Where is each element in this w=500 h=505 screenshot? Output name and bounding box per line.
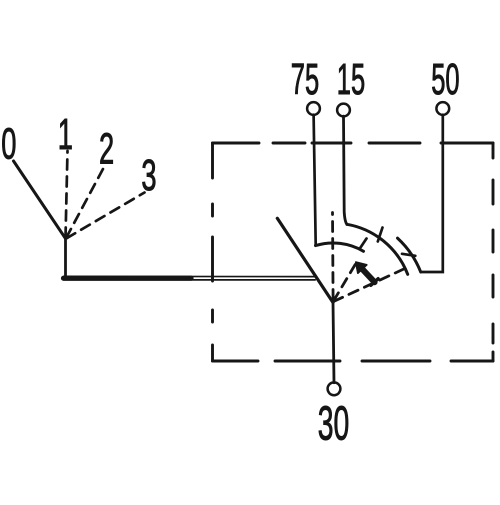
- switch housing dashed top edge: [213, 142, 494, 145]
- svg-text:1: 1: [58, 109, 73, 158]
- switch housing dashed bottom edge: [213, 360, 494, 363]
- key position 2 line (dashed): [66, 168, 103, 238]
- switch housing dashed right edge: [492, 143, 495, 361]
- mechanical link lower rail: [64, 279, 316, 281]
- terminal circle 15: [337, 104, 350, 117]
- key position 0 line (solid): [14, 161, 66, 239]
- svg-text:50: 50: [431, 53, 459, 103]
- svg-text:75: 75: [291, 53, 319, 103]
- spring return arrow shaft: [362, 268, 375, 282]
- svg-text:2: 2: [99, 124, 114, 173]
- terminal circle 50: [436, 102, 449, 115]
- spring return arrow tail cap: [371, 279, 378, 286]
- mechanical link upper rail: [64, 275, 317, 277]
- contact tick bridging middle and outer arcs: [402, 254, 415, 256]
- switch lever (position 0): [277, 218, 333, 302]
- terminal circle 75: [307, 102, 320, 115]
- switch housing dashed left edge: [211, 143, 214, 361]
- wire terminal 75 to contact arc: [314, 115, 316, 245]
- svg-text:15: 15: [337, 53, 365, 103]
- key position 3 line (dashed): [67, 193, 145, 239]
- contact arc 15 (middle, r80): [347, 224, 408, 274]
- contact arc 50 (outer, r91.5): [398, 238, 421, 272]
- rotor position 3 dashed line: [334, 269, 405, 302]
- wire terminal 50 down and left: [421, 115, 443, 272]
- key position 1 line (dashed): [66, 151, 68, 238]
- svg-text:30: 30: [318, 397, 349, 451]
- terminal circle 30: [328, 382, 341, 395]
- rotor position 2 dashed line: [334, 262, 357, 301]
- wire terminal 15 with elbow into middle arc: [344, 116, 348, 224]
- contact tick at inner arc end: [360, 239, 367, 250]
- mechanical link thick segment: [64, 276, 192, 281]
- key pivot stem: [64, 238, 67, 278]
- spring return arrow head: [356, 262, 367, 273]
- contact arc 75 (inner, r60): [316, 243, 364, 251]
- wire pivot to terminal 30: [333, 302, 334, 383]
- rotor position 1 dashed line: [331, 213, 334, 300]
- contact tick across middle arc: [378, 228, 383, 242]
